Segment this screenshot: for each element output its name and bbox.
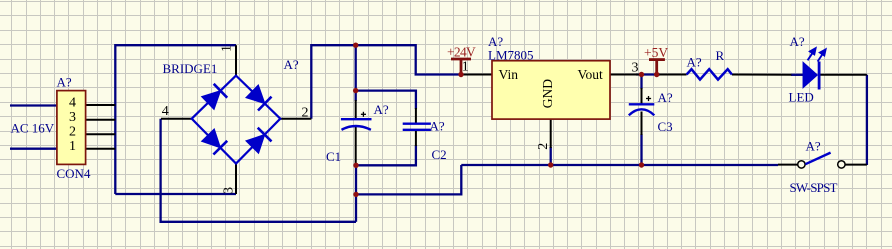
bridge pin 3 stub xyxy=(235,164,237,195)
svg-text:1: 1 xyxy=(462,60,469,75)
C3 top pin xyxy=(641,88,643,104)
C2 top pin xyxy=(415,108,417,123)
svg-text:GND: GND xyxy=(540,79,555,108)
R right pin xyxy=(732,74,792,76)
svg-text:3: 3 xyxy=(69,110,76,125)
LED arrow 1 xyxy=(808,48,816,60)
svg-text:C2: C2 xyxy=(432,147,447,162)
wire CON4 p1 column to bridge p3 bottom xyxy=(115,193,236,195)
wire branch to C2 top xyxy=(356,91,416,109)
wire LED to switch riser xyxy=(866,75,868,165)
CON4 pin 3 xyxy=(86,119,116,121)
svg-text:2: 2 xyxy=(69,125,76,140)
junction C1 col / C2 bottom xyxy=(353,163,358,168)
bridge pin 4 stub xyxy=(161,118,192,120)
C1 top pin xyxy=(355,100,357,119)
resistor R zigzag xyxy=(687,69,732,79)
svg-text:LM7805: LM7805 xyxy=(488,48,534,63)
connector CON4 body xyxy=(57,91,86,165)
junction +24V xyxy=(458,72,463,77)
wire AC stub bottom xyxy=(10,148,58,150)
svg-text:LED: LED xyxy=(789,90,814,105)
wire C3 top stub xyxy=(640,75,642,90)
junction gnd C3 xyxy=(639,162,644,167)
svg-text:3: 3 xyxy=(632,61,639,76)
op-amp: none. regulator U LM7805 body xyxy=(492,61,610,119)
svg-text:Vout: Vout xyxy=(578,67,604,82)
svg-text:2: 2 xyxy=(536,143,551,150)
svg-text:4: 4 xyxy=(162,104,169,119)
switch SW-SPST xyxy=(798,161,805,168)
svg-text:BRIDGE1: BRIDGE1 xyxy=(163,61,218,76)
wire AC stub top xyxy=(10,104,58,106)
LM7805 pin 1 xyxy=(461,74,492,76)
capacitor C3 (polarized) xyxy=(629,104,655,115)
CON4 pin 1 xyxy=(86,148,116,150)
svg-text:3: 3 xyxy=(222,187,237,194)
LED right pin xyxy=(820,74,867,76)
svg-text:2: 2 xyxy=(302,106,309,121)
junction C1 col / bottom loop xyxy=(353,192,358,197)
bridge pin 2 stub xyxy=(280,118,311,120)
svg-text:+24V: +24V xyxy=(447,45,476,60)
bridge diode bottom-left xyxy=(203,130,227,154)
C3 plus sign xyxy=(646,96,651,101)
LM7805 pin 2 xyxy=(550,119,552,148)
LM7805 pin 3 xyxy=(610,74,640,76)
svg-text:1: 1 xyxy=(220,45,235,52)
junction C2 branch xyxy=(353,88,358,93)
svg-text:AC 16V: AC 16V xyxy=(11,121,55,136)
wire top rail CON4 p4 to bridge p1 xyxy=(115,45,236,194)
junction +5V xyxy=(654,72,659,77)
wire gnd rail xyxy=(461,164,778,166)
wire C2 bottom to C1 column xyxy=(356,145,416,165)
svg-text:CON4: CON4 xyxy=(57,166,91,181)
svg-text:C1: C1 xyxy=(326,149,341,164)
wire bottom loop from bridge p4 xyxy=(161,119,356,222)
svg-text:SW-SPST: SW-SPST xyxy=(790,180,838,195)
svg-text:Vin: Vin xyxy=(499,67,519,82)
svg-text:A?: A? xyxy=(806,139,821,154)
C1 bottom pin xyxy=(355,127,357,165)
wire C1 top column xyxy=(355,45,357,101)
svg-text:A?: A? xyxy=(284,57,299,72)
capacitor C1 (polarized) xyxy=(341,119,372,130)
svg-text:4: 4 xyxy=(69,96,76,111)
svg-text:A?: A? xyxy=(687,55,702,70)
wire gnd rail drop to bottom xyxy=(356,165,461,194)
svg-text:A?: A? xyxy=(790,34,805,49)
svg-text:A?: A? xyxy=(658,90,673,105)
R left pin xyxy=(659,74,687,76)
wire regulator pin2 to rail xyxy=(550,147,552,165)
wire Vout to R xyxy=(636,73,660,75)
C2 bottom pin xyxy=(415,131,417,146)
power +5V bar xyxy=(649,60,665,75)
wire bridge p2 riser to Vin xyxy=(311,45,461,119)
junction C3 top xyxy=(639,72,644,77)
bridge diode top-left xyxy=(203,84,227,108)
wire C3 bottom stub xyxy=(640,134,642,165)
svg-text:A?: A? xyxy=(57,74,72,89)
C1 plus sign xyxy=(361,112,366,117)
bridge pin 1 stub xyxy=(235,45,237,75)
LED arrow 2 xyxy=(818,49,826,61)
switch left pin xyxy=(778,164,798,166)
junction gnd pin2 xyxy=(548,162,553,167)
bridge diode bottom-right xyxy=(247,128,271,152)
svg-text:+5V: +5V xyxy=(644,45,668,60)
switch right pin xyxy=(845,164,867,166)
svg-text:A?: A? xyxy=(430,119,445,134)
svg-text:R: R xyxy=(716,48,725,63)
bridge diode top-right xyxy=(247,86,271,110)
C3 bottom pin xyxy=(641,112,643,136)
power +24V bar xyxy=(451,59,471,75)
diode LED xyxy=(803,63,817,87)
switch lever xyxy=(805,153,830,165)
svg-text:C3: C3 xyxy=(658,119,673,134)
capacitor C2 xyxy=(403,124,431,130)
bridge BRIDGE1 diamond xyxy=(192,76,281,164)
wire C1 bottom column xyxy=(355,165,357,222)
CON4 pin 2 xyxy=(86,133,116,135)
wire R to LED xyxy=(791,74,803,76)
CON4 pin 4 xyxy=(86,104,116,106)
svg-text:A?: A? xyxy=(374,102,389,117)
junction C1 top xyxy=(353,43,358,48)
svg-text:1: 1 xyxy=(69,139,76,154)
